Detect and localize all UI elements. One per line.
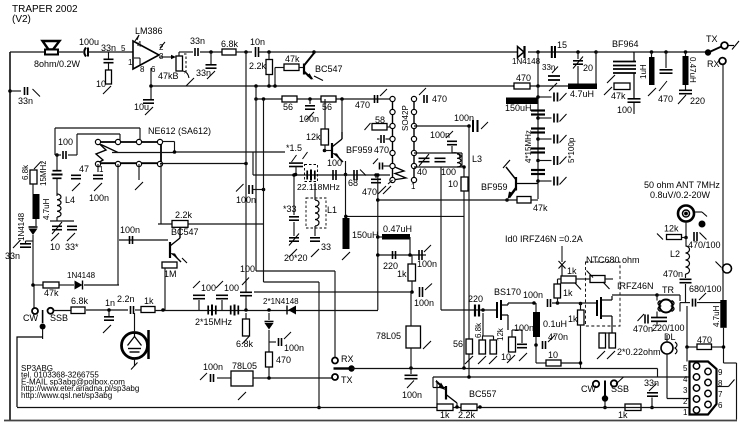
resistor 470 limiter	[266, 352, 273, 367]
ladder junction 3	[536, 137, 540, 141]
capacitor 100n mixer out	[249, 185, 253, 194]
wire 1k pa1 left	[558, 278, 562, 280]
wire ANT down to 12k junction	[685, 222, 687, 238]
capacitor 100p tap 1	[554, 93, 558, 102]
svg-text:20*20: 20*20	[284, 253, 308, 263]
wire 6.8k to 2.2n	[86, 309, 128, 311]
wire RX feed down to 4.7uH choke	[722, 65, 724, 301]
capacitor 470 into S042P pin a	[381, 135, 384, 143]
wire supply to 12k	[324, 99, 326, 129]
inductor 0.1uH choke	[533, 312, 540, 337]
svg-text:1k: 1k	[397, 269, 407, 279]
ground at 78L05 right	[423, 341, 431, 349]
wire base BF959	[325, 150, 333, 152]
trimmer arrow 20*20	[289, 234, 299, 246]
svg-text:10: 10	[96, 79, 106, 89]
junction x469 top	[467, 124, 471, 128]
resistor 2.2k mid	[172, 221, 188, 228]
svg-text:33n: 33n	[101, 43, 116, 53]
wire below 100 cap	[633, 103, 635, 114]
svg-text:470n: 470n	[663, 269, 683, 279]
svg-text:33n: 33n	[542, 63, 555, 72]
trimmer capacitor 10 left tank	[52, 226, 62, 229]
S042P left pin y=99	[390, 96, 395, 101]
dashed box NTC	[586, 262, 621, 326]
junction x246 y164	[244, 162, 248, 166]
svg-text:6.8k: 6.8k	[21, 164, 30, 180]
inductor L2	[686, 246, 690, 274]
switch bar CW/SSB	[42, 310, 44, 323]
trimmer capacitor 40	[419, 158, 430, 161]
wire 58 to S042P pin	[387, 126, 393, 128]
junction 47k rail B	[273, 84, 277, 88]
transistor Q4 BC547 second	[170, 225, 187, 263]
svg-text:2.2k: 2.2k	[458, 410, 476, 420]
svg-text:L3: L3	[472, 154, 482, 164]
capacitor 100 at BF964	[628, 99, 641, 102]
resistor 0.22ohm A	[599, 333, 606, 348]
svg-text:100: 100	[240, 264, 255, 274]
junction 78L05 right	[409, 366, 413, 370]
wire 47k to BC547 base	[299, 67, 304, 69]
wire to 47k	[275, 67, 284, 69]
svg-text:47k: 47k	[611, 91, 626, 101]
svg-text:2: 2	[159, 43, 164, 52]
wire x=246 to SSB rail	[245, 296, 247, 310]
connector DB9	[690, 362, 717, 415]
wire 4.7uH PA down	[723, 328, 725, 347]
junction after 2.2k	[478, 405, 482, 409]
junction pin6 rail B	[149, 84, 153, 88]
capacitor 100p tap 2	[554, 114, 558, 123]
svg-text:CW: CW	[23, 313, 38, 323]
slash before 470 S042P mid	[373, 159, 378, 165]
transistor IRFZ46N MOSFET	[597, 296, 612, 333]
wire source to 0.22	[602, 332, 612, 334]
capacitor 100n at NE612 pin1	[93, 175, 103, 178]
slash at 470 S042P	[419, 88, 426, 95]
wire rail y=407	[17, 407, 690, 409]
svg-text:6: 6	[718, 401, 723, 410]
svg-text:220: 220	[468, 294, 483, 304]
wire 33n to rail	[651, 398, 653, 408]
ground below 0.22 A	[597, 351, 605, 359]
slash at 470/100	[700, 233, 707, 240]
capacitor 470 osc to ground	[371, 179, 381, 182]
antenna connector outer	[678, 206, 694, 222]
capacitor 100n series y292	[420, 287, 423, 297]
antenna connector inner	[685, 212, 688, 215]
svg-text:BC547: BC547	[315, 64, 343, 74]
hook at 100n tank	[452, 153, 460, 159]
crystal 15MHz ladder 3	[531, 149, 545, 153]
slash at 100n S042P	[481, 122, 488, 129]
capacitor 100 NE612 input	[63, 151, 66, 159]
capacitor 33*	[67, 226, 77, 229]
capacitor 100n S042P	[473, 120, 478, 132]
svg-text:TX: TX	[706, 34, 718, 44]
resistor 1M	[162, 262, 177, 268]
wire filter cap2	[221, 300, 223, 310]
svg-text:15: 15	[557, 40, 567, 50]
svg-text:BC547: BC547	[171, 227, 199, 237]
junction 1uH	[650, 50, 654, 54]
svg-text:12k: 12k	[306, 132, 321, 142]
junction tank bottom	[462, 165, 466, 169]
transistor BF964 dual-gate MOSFET	[607, 52, 636, 98]
wire to 0.47uH	[378, 236, 383, 238]
S042P right pin y=112	[411, 109, 416, 114]
svg-text:1M: 1M	[164, 269, 177, 279]
capacitor 100n BS170 source	[517, 344, 527, 347]
junction 10 wire	[579, 361, 583, 365]
resistor 1k pa3	[578, 310, 585, 325]
svg-text:470: 470	[355, 100, 370, 110]
junction 470 osc2	[374, 173, 378, 177]
wire step Q vertical x=263	[263, 99, 265, 282]
switch contact RX circle	[719, 58, 726, 65]
resistor 6.8k filter	[243, 319, 250, 336]
capacitor 100n BC547-2	[130, 236, 133, 244]
capacitor 33n left edge	[25, 87, 28, 95]
wire *33 to trimmer	[293, 222, 295, 236]
key jack circle	[723, 264, 732, 273]
junction x464	[462, 366, 466, 370]
junction BC547 collector	[312, 50, 316, 54]
svg-text:IRFZ46N: IRFZ46N	[617, 281, 654, 291]
svg-text:1: 1	[128, 58, 133, 67]
svg-text:6.8k: 6.8k	[236, 339, 254, 349]
wire mic to rail	[134, 313, 136, 333]
svg-text:220: 220	[690, 96, 705, 106]
ground below 0.22 B	[607, 351, 615, 359]
svg-text:100: 100	[617, 105, 632, 115]
junction 1n	[107, 308, 111, 312]
wire x=469 long vertical	[468, 126, 470, 377]
wire nest outer top	[55, 127, 140, 129]
wire 78L05 right to rail368	[410, 348, 412, 368]
wire rail A left to speaker	[10, 51, 45, 53]
wire to 680/100	[680, 302, 690, 304]
wire into 78L05	[217, 377, 231, 379]
antenna connector mid	[683, 210, 690, 217]
svg-text:68: 68	[348, 178, 358, 188]
wire NE612 mid output rail	[112, 152, 175, 154]
svg-text:47kB: 47kB	[158, 71, 179, 81]
slash at 470 osc	[380, 89, 387, 96]
ground below pot wiper	[186, 78, 194, 86]
pot wiper hook to ground	[183, 71, 189, 78]
svg-text:78L05: 78L05	[232, 361, 257, 371]
wire jog to 33n lower left	[26, 240, 34, 242]
junction emitter rail	[376, 198, 380, 202]
inductor 4.7uH choke vertical	[33, 194, 40, 219]
svg-text:10: 10	[548, 350, 558, 360]
svg-text:5: 5	[121, 44, 126, 53]
capacitor 33n near BF964	[548, 76, 560, 80]
svg-text:9: 9	[718, 368, 723, 377]
S042P left pin y=112	[390, 109, 395, 114]
junction 470 right	[722, 345, 726, 349]
junction 0.47uH	[684, 50, 688, 54]
capacitor 100p tap 4	[554, 156, 558, 165]
svg-text:33n: 33n	[18, 96, 33, 106]
slash below 100n	[407, 381, 414, 389]
resistor 1k audio	[141, 307, 155, 313]
microphone electret	[122, 330, 149, 359]
ground below 47	[72, 183, 80, 191]
S042P right pin y=166	[411, 163, 416, 168]
inductor 150uH choke vertical	[343, 218, 350, 249]
svg-text:470: 470	[658, 94, 673, 104]
wire DL to DB9 pin2	[667, 398, 690, 400]
wire LM386 output to pot	[159, 56, 174, 58]
wire 0.47uH to 220	[685, 85, 687, 90]
resistor 47k base BC547	[284, 64, 299, 71]
inductor 4.7uH choke	[568, 84, 597, 90]
S042P right pin y=180	[411, 177, 416, 182]
junction 2.2k rail B	[267, 84, 271, 88]
wire to 0.1uH	[535, 303, 537, 312]
wire to right edge	[724, 362, 737, 364]
wire 1N4148 to BF964 area	[528, 51, 596, 53]
junction 470 left	[685, 345, 689, 349]
wire 12k top	[493, 336, 495, 340]
junction 0.1uH top	[532, 301, 536, 305]
DB9 pin left 5 circle	[693, 363, 699, 369]
capacitor 10n series	[256, 47, 259, 57]
svg-text:100n: 100n	[414, 298, 434, 308]
wire 100 cap down to crystal	[56, 155, 58, 170]
wire to L2	[685, 238, 687, 247]
capacitor 100 filter 2	[216, 295, 228, 298]
NE612 top pin 3 circle	[136, 139, 141, 144]
svg-text:100n: 100n	[284, 343, 304, 353]
slash at tap 1	[560, 93, 567, 101]
wire IRFZ drain to TR	[612, 294, 657, 296]
slash at 100 filter 1	[193, 281, 200, 288]
svg-text:L1: L1	[327, 205, 337, 215]
DB9 pin left 2 circle	[693, 396, 699, 402]
capacitor 33n bottom	[647, 393, 658, 396]
wire tank right	[461, 153, 463, 167]
resistor 10 driver	[546, 360, 561, 366]
wire step P horizontal y=271	[256, 270, 335, 272]
svg-text:4.7uH: 4.7uH	[570, 89, 594, 99]
svg-text:6.8k: 6.8k	[71, 296, 89, 306]
ground below 100n osc	[306, 112, 314, 120]
capacitor 100n osc supply	[305, 106, 315, 109]
wire tank out down x=441	[440, 167, 442, 310]
wire crystal to L4	[56, 179, 58, 196]
slash at SSB2	[616, 377, 624, 384]
wire 1k to y292	[411, 281, 413, 292]
svg-text:220: 220	[383, 261, 398, 271]
wire *1.5 to y175	[295, 167, 297, 175]
svg-text:BS170: BS170	[494, 287, 521, 297]
svg-text:6: 6	[151, 65, 156, 74]
ladder junction 5	[536, 179, 540, 183]
slash at 100n y292	[425, 284, 432, 291]
wire step P vertical x=256	[255, 86, 257, 271]
ground below 470 osc2	[378, 186, 386, 194]
svg-text:2.2k: 2.2k	[249, 61, 267, 71]
svg-text:2.2n: 2.2n	[117, 294, 135, 304]
crystal 22.118MHz	[307, 170, 315, 181]
svg-text:56: 56	[322, 102, 332, 112]
junction y99 left	[254, 97, 258, 101]
resistor 56 second	[321, 96, 336, 102]
crystal 15MHz ladder 4	[531, 170, 545, 174]
slash at 100n y255	[424, 245, 431, 252]
svg-text:SSB: SSB	[50, 313, 68, 323]
power node dot	[699, 221, 706, 228]
svg-text:10: 10	[50, 242, 60, 252]
wire oscillator supply y=99	[256, 98, 392, 100]
diode 1N4148 limiter shunt	[265, 322, 274, 330]
capacitor 220	[679, 90, 692, 93]
svg-text:40: 40	[417, 167, 427, 177]
DB9 pin right 7 circle	[705, 390, 711, 396]
wire rail A to BF964 drain	[596, 51, 634, 53]
wire nest outer left	[54, 128, 56, 155]
speaker 8ohm/0.2W	[43, 41, 60, 55]
wire rail A down to 4.7uH	[595, 52, 597, 85]
junction BF959 collector y99	[340, 97, 344, 101]
junction rail A / x=246 vertical	[244, 50, 248, 54]
wire y=224	[158, 223, 264, 225]
IC NE612 body	[96, 142, 161, 163]
svg-text:56: 56	[453, 339, 463, 349]
IC S042P body	[393, 99, 415, 180]
junction 470 y378	[267, 376, 271, 380]
capacitor 100n below rail368	[405, 375, 418, 378]
S042P right pin y=139	[411, 136, 416, 141]
wire to 6.8k filter	[245, 313, 247, 319]
switch pole 2	[602, 395, 608, 401]
junction x=596	[594, 50, 598, 54]
svg-text:6.8k: 6.8k	[474, 322, 483, 338]
wire SSB to 6.8k	[54, 310, 72, 312]
diode 1N4148 limiter series	[287, 306, 296, 315]
slash below mic	[131, 363, 138, 370]
wire LM386 pin6 down	[150, 68, 152, 99]
wire x=246 vertical	[245, 52, 247, 292]
S042P right pin y=99	[411, 96, 416, 101]
svg-text:RX: RX	[341, 354, 354, 364]
wire jog down	[174, 142, 176, 153]
junction crystal ladder top	[536, 84, 540, 88]
wire pin to rail jog	[162, 141, 175, 143]
op-amp U1 LM386	[133, 35, 165, 69]
capacitor 100 osc series	[333, 170, 336, 180]
wire 78L05 out to TX contact	[253, 377, 332, 379]
junction BF959 base	[323, 149, 327, 153]
svg-text:RX: RX	[707, 59, 720, 69]
svg-text:100: 100	[201, 283, 216, 293]
S042P left pin y=126	[390, 123, 395, 128]
svg-text:*1.5: *1.5	[286, 143, 302, 153]
slash at 470	[659, 81, 667, 91]
junction *1.5	[294, 173, 298, 177]
slash at 680/100	[699, 293, 706, 300]
ground below 100n	[94, 183, 102, 191]
wire BF959 collector to supply	[341, 99, 343, 132]
svg-text:20: 20	[583, 63, 593, 73]
svg-text:47k: 47k	[285, 54, 300, 64]
diode 1N4148 vertical	[29, 227, 38, 235]
svg-text:TX: TX	[341, 375, 353, 385]
slash at tap 2	[560, 114, 567, 122]
wire oscillator line y=175	[253, 174, 390, 176]
svg-text:33n: 33n	[644, 378, 659, 388]
svg-text:6.8k: 6.8k	[221, 39, 239, 49]
junction ANT 12k	[684, 236, 688, 240]
wire L1 to 33	[314, 226, 316, 236]
ground below 12k	[489, 356, 497, 364]
slash at DB9 pin8	[729, 380, 735, 387]
switch arm to TX	[711, 47, 722, 52]
resistor 56 driver	[466, 339, 473, 354]
S042P left pin y=180	[390, 177, 395, 182]
svg-text:2.2k: 2.2k	[175, 210, 193, 220]
slash at 33n left	[33, 89, 41, 97]
ground 33n right	[549, 83, 557, 91]
wire 10 to x581	[561, 362, 581, 364]
wire node down to rail B	[537, 52, 539, 86]
resistor 470 DB9	[697, 344, 712, 350]
wire pin3 down	[138, 164, 140, 180]
wire nest inner top	[77, 133, 120, 135]
wire stub cap a	[377, 138, 380, 140]
svg-text:33*: 33*	[65, 242, 79, 252]
wire y=292	[254, 291, 412, 293]
ground below trimmer 10	[51, 233, 59, 241]
trimmer arrow 20	[573, 57, 583, 69]
wire to 1uH	[651, 52, 653, 57]
wire crystal ladder vertical	[537, 86, 539, 199]
inductor L3 coil	[457, 154, 461, 167]
resistor 47k left	[43, 282, 59, 288]
wire 0.1uH down	[535, 337, 537, 363]
capacitor 15 series rail A	[552, 46, 555, 58]
capacitor 100 tank	[435, 158, 446, 161]
svg-text:7: 7	[718, 390, 723, 399]
ground below 33	[311, 249, 319, 257]
DB9 pin left 1 circle	[693, 407, 699, 413]
slash at key jack	[716, 262, 722, 268]
trimmer arrow 10	[52, 222, 62, 234]
svg-text:1: 1	[411, 182, 416, 191]
resistor 12k	[321, 129, 329, 145]
svg-text:10n: 10n	[250, 37, 265, 47]
capacitor 100n driver series	[548, 299, 551, 307]
wire 470 to y378	[268, 367, 270, 378]
svg-text:8ohm/0.2W: 8ohm/0.2W	[34, 59, 81, 69]
wire rail y=377	[433, 376, 690, 378]
ladder junction 2	[536, 116, 540, 120]
wire 470n down to 680	[685, 284, 687, 303]
slash at 6.8k filter	[242, 337, 249, 345]
wire nest outer right	[139, 128, 141, 140]
diode D1 1N4148 on rail A	[518, 46, 525, 58]
slash after 68	[360, 170, 366, 176]
wire BF964 drain to TX switch	[634, 51, 705, 53]
dashed box around L1	[306, 198, 326, 228]
svg-text:0.47uH: 0.47uH	[688, 57, 697, 83]
wire rail A to 1N4148	[314, 51, 519, 53]
resistor 6.8k driver	[479, 340, 486, 354]
